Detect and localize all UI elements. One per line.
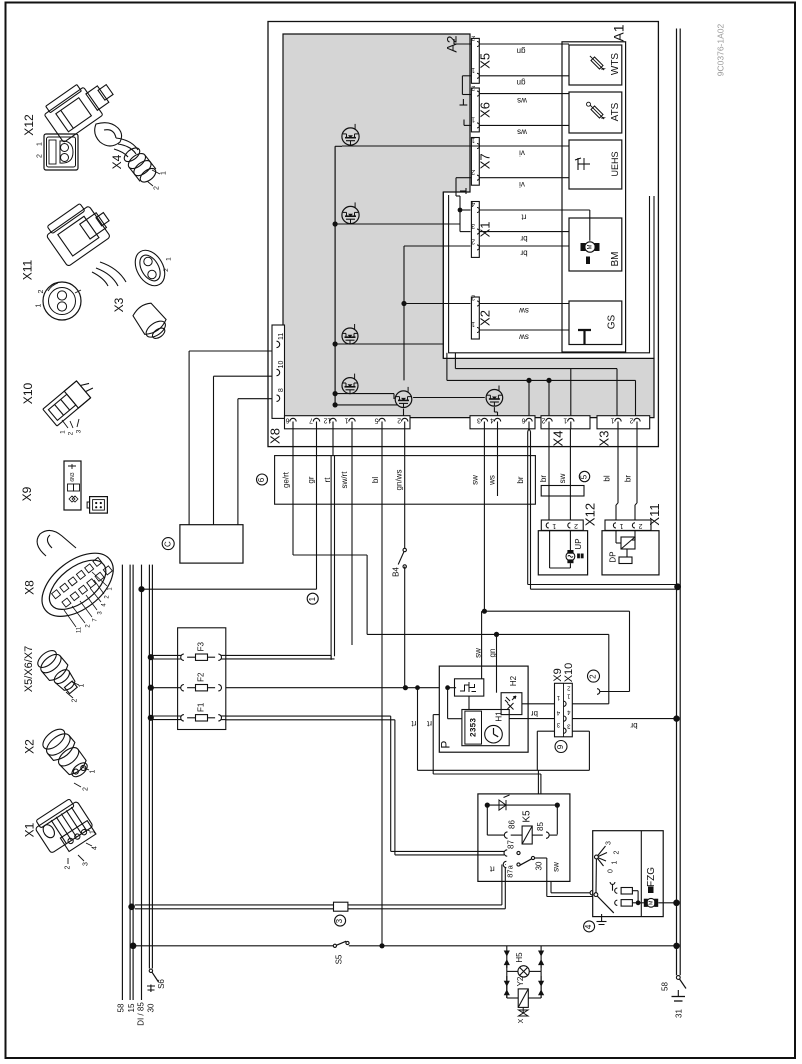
- svg-text:2: 2: [471, 294, 475, 301]
- svg-text:1: 1: [60, 430, 67, 434]
- svg-text:30: 30: [147, 1003, 156, 1012]
- svg-text:2: 2: [471, 84, 475, 91]
- svg-text:9C0376-1A02: 9C0376-1A02: [715, 24, 725, 77]
- svg-text:br: br: [539, 475, 548, 482]
- svg-text:S6: S6: [157, 979, 166, 989]
- svg-text:6: 6: [521, 417, 525, 424]
- svg-text:5: 5: [374, 417, 378, 424]
- svg-text:X11: X11: [647, 503, 662, 525]
- svg-text:br: br: [531, 709, 538, 718]
- svg-text:F1: F1: [196, 702, 205, 712]
- svg-text:M: M: [648, 900, 654, 905]
- svg-text:X: X: [518, 1018, 525, 1023]
- svg-text:4: 4: [490, 417, 494, 424]
- svg-text:1: 1: [36, 142, 43, 146]
- svg-text:2: 2: [38, 289, 45, 293]
- svg-text:X2: X2: [23, 739, 37, 754]
- svg-text:X1: X1: [477, 221, 492, 237]
- svg-text:85: 85: [536, 822, 545, 831]
- svg-text:4: 4: [91, 846, 98, 850]
- svg-text:sw: sw: [519, 306, 529, 315]
- svg-text:5: 5: [580, 474, 589, 479]
- svg-text:bl: bl: [371, 477, 380, 483]
- svg-text:2: 2: [471, 34, 475, 41]
- svg-text:X8: X8: [23, 580, 37, 595]
- svg-text:30: 30: [535, 861, 544, 870]
- svg-text:6N3: 6N3: [70, 472, 76, 481]
- svg-text:ws: ws: [517, 96, 528, 105]
- svg-text:br: br: [630, 721, 637, 730]
- svg-text:6: 6: [257, 477, 266, 482]
- svg-text:gn: gn: [488, 649, 497, 658]
- svg-text:br: br: [624, 475, 633, 482]
- svg-text:GS: GS: [607, 314, 618, 329]
- svg-text:vi: vi: [519, 180, 525, 189]
- svg-text:1: 1: [89, 830, 96, 834]
- svg-text:4: 4: [584, 924, 593, 929]
- svg-text:31: 31: [675, 1009, 684, 1018]
- svg-text:X5: X5: [477, 53, 492, 69]
- svg-text:br: br: [520, 234, 527, 243]
- svg-text:X3: X3: [596, 431, 611, 447]
- svg-text:sw: sw: [552, 862, 561, 872]
- svg-text:M: M: [588, 245, 594, 250]
- svg-text:br: br: [520, 248, 527, 257]
- svg-text:2: 2: [153, 186, 160, 190]
- svg-text:ATS: ATS: [610, 102, 621, 121]
- svg-text:2: 2: [629, 417, 633, 424]
- svg-text:2: 2: [68, 431, 75, 435]
- svg-text:X2: X2: [477, 310, 492, 326]
- svg-text:1: 1: [471, 66, 475, 73]
- svg-text:UEHS: UEHS: [610, 151, 620, 176]
- svg-text:3: 3: [477, 417, 481, 424]
- svg-text:1: 1: [563, 417, 567, 424]
- svg-text:X5/X6/X7: X5/X6/X7: [23, 646, 35, 692]
- svg-text:1: 1: [471, 136, 475, 143]
- svg-text:X10: X10: [563, 663, 575, 683]
- svg-text:WTS: WTS: [610, 53, 621, 76]
- svg-text:H5: H5: [515, 952, 524, 963]
- svg-text:F2: F2: [196, 672, 205, 682]
- svg-text:1: 1: [160, 171, 167, 175]
- svg-text:3: 3: [335, 918, 344, 923]
- svg-text:2: 2: [36, 154, 43, 158]
- svg-text:1: 1: [611, 860, 618, 864]
- svg-text:X8: X8: [267, 428, 282, 444]
- svg-text:A1: A1: [610, 24, 626, 41]
- svg-text:X9: X9: [20, 486, 34, 501]
- svg-text:1: 1: [471, 320, 475, 327]
- svg-text:bl: bl: [603, 475, 612, 481]
- svg-text:86: 86: [507, 820, 516, 829]
- svg-text:rt: rt: [411, 719, 417, 728]
- svg-text:vi: vi: [519, 148, 525, 157]
- svg-text:sw: sw: [474, 648, 483, 658]
- svg-text:11: 11: [278, 333, 285, 340]
- svg-text:11: 11: [77, 626, 83, 633]
- svg-text:1: 1: [552, 522, 556, 529]
- svg-text:0: 0: [607, 869, 614, 873]
- svg-text:X4: X4: [110, 154, 124, 169]
- svg-text:H1: H1: [495, 711, 504, 722]
- svg-text:X12: X12: [22, 114, 36, 136]
- svg-text:DI / 85: DI / 85: [137, 1002, 146, 1026]
- svg-text:K5: K5: [522, 810, 533, 823]
- svg-text:3: 3: [76, 429, 83, 433]
- svg-text:sw/rt: sw/rt: [340, 471, 349, 489]
- svg-text:X10: X10: [21, 383, 35, 405]
- svg-text:1: 1: [166, 257, 173, 261]
- svg-text:DP: DP: [609, 551, 618, 562]
- svg-text:3: 3: [605, 841, 612, 845]
- svg-text:2: 2: [541, 417, 545, 424]
- svg-text:58: 58: [117, 1003, 126, 1012]
- svg-text:7: 7: [309, 417, 313, 424]
- svg-text:2: 2: [64, 865, 71, 869]
- svg-text:UP: UP: [574, 538, 583, 549]
- svg-text:1: 1: [35, 303, 42, 307]
- svg-text:X1: X1: [23, 822, 37, 837]
- svg-text:gn: gn: [517, 78, 526, 87]
- svg-text:12: 12: [324, 417, 332, 424]
- svg-text:15: 15: [127, 1003, 136, 1012]
- svg-text:P: P: [438, 741, 452, 749]
- svg-text:sw: sw: [519, 332, 529, 341]
- svg-text:2: 2: [613, 850, 620, 854]
- svg-text:X3: X3: [112, 297, 126, 312]
- svg-text:X6: X6: [477, 102, 492, 118]
- svg-text:58: 58: [661, 982, 670, 991]
- svg-text:ws: ws: [517, 127, 528, 136]
- svg-text:X11: X11: [21, 259, 35, 280]
- svg-text:Y2: Y2: [516, 976, 525, 986]
- svg-text:X4: X4: [550, 431, 565, 447]
- svg-text:gn: gn: [517, 46, 526, 55]
- svg-text:2: 2: [471, 168, 475, 175]
- svg-text:C: C: [163, 541, 172, 547]
- svg-text:sw: sw: [558, 473, 567, 483]
- svg-text:S5: S5: [334, 954, 343, 964]
- svg-text:br: br: [516, 476, 525, 483]
- svg-text:X12: X12: [582, 503, 597, 526]
- svg-text:rt: rt: [521, 212, 527, 221]
- svg-text:gr: gr: [306, 476, 315, 483]
- svg-text:X7: X7: [477, 153, 492, 169]
- svg-text:9: 9: [556, 744, 565, 749]
- svg-text:ws: ws: [487, 475, 496, 486]
- svg-text:2: 2: [471, 238, 475, 245]
- svg-text:2: 2: [574, 522, 578, 529]
- svg-text:2: 2: [638, 522, 642, 529]
- svg-text:2: 2: [82, 787, 89, 791]
- svg-text:2: 2: [71, 698, 78, 702]
- svg-text:1: 1: [344, 417, 348, 424]
- svg-text:1: 1: [89, 769, 96, 773]
- svg-text:87: 87: [507, 840, 516, 849]
- svg-text:2: 2: [589, 674, 598, 679]
- svg-text:rt: rt: [489, 864, 495, 873]
- svg-text:rt: rt: [426, 719, 432, 728]
- svg-text:1: 1: [308, 596, 317, 601]
- svg-text:B4: B4: [392, 567, 401, 577]
- svg-text:1: 1: [471, 116, 475, 123]
- svg-text:1: 1: [610, 417, 614, 424]
- svg-text:3: 3: [471, 222, 475, 229]
- svg-text:87a: 87a: [505, 864, 514, 877]
- svg-text:10: 10: [278, 361, 285, 369]
- svg-text:4: 4: [471, 200, 475, 207]
- svg-text:1: 1: [78, 683, 85, 687]
- svg-text:BM: BM: [610, 252, 621, 267]
- svg-text:F3: F3: [196, 641, 205, 651]
- svg-text:2353: 2353: [469, 718, 478, 737]
- svg-text:2: 2: [397, 417, 401, 424]
- svg-text:6: 6: [285, 417, 289, 424]
- svg-text:2: 2: [163, 268, 170, 272]
- svg-text:ge/rt: ge/rt: [282, 471, 291, 488]
- svg-text:FZG: FZG: [646, 867, 657, 887]
- svg-text:1: 1: [619, 522, 623, 529]
- svg-text:H2: H2: [509, 675, 518, 686]
- svg-text:X9: X9: [552, 668, 564, 681]
- svg-text:3: 3: [82, 862, 89, 866]
- svg-text:sw: sw: [471, 475, 480, 485]
- svg-text:8: 8: [278, 388, 285, 392]
- svg-text:gn/ws: gn/ws: [395, 470, 404, 491]
